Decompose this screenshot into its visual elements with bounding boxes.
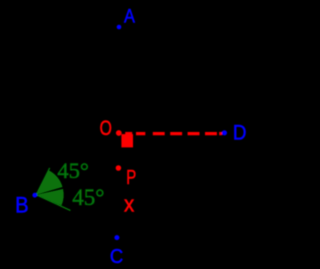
angle sector PBC 45deg (36, 189, 63, 206)
angle sector ABP 45deg (36, 170, 62, 194)
svg-text:x: x (124, 192, 135, 217)
svg-text:D: D (233, 121, 247, 144)
point D (222, 130, 227, 135)
label C (110, 245, 123, 268)
point B (32, 193, 37, 198)
point P (116, 165, 122, 171)
label D (233, 121, 247, 144)
svg-text:A: A (124, 5, 135, 27)
svg-text:B: B (15, 194, 28, 218)
svg-text:O: O (100, 116, 112, 140)
point O (116, 130, 122, 136)
svg-text:C: C (110, 245, 123, 264)
point C (114, 235, 119, 240)
label x (124, 192, 135, 217)
svg-text:P: P (126, 166, 136, 189)
label A (124, 5, 135, 27)
label P (126, 166, 136, 189)
point A (117, 25, 122, 30)
dashed segment O-D (125, 132, 222, 135)
svg-text:45°: 45° (72, 185, 104, 210)
label O (100, 116, 112, 140)
ray B toward A (36, 168, 50, 195)
label B (15, 194, 28, 218)
ray B lower (36, 195, 70, 211)
svg-text:45°: 45° (57, 158, 89, 183)
right-angle square at O (121, 134, 133, 147)
